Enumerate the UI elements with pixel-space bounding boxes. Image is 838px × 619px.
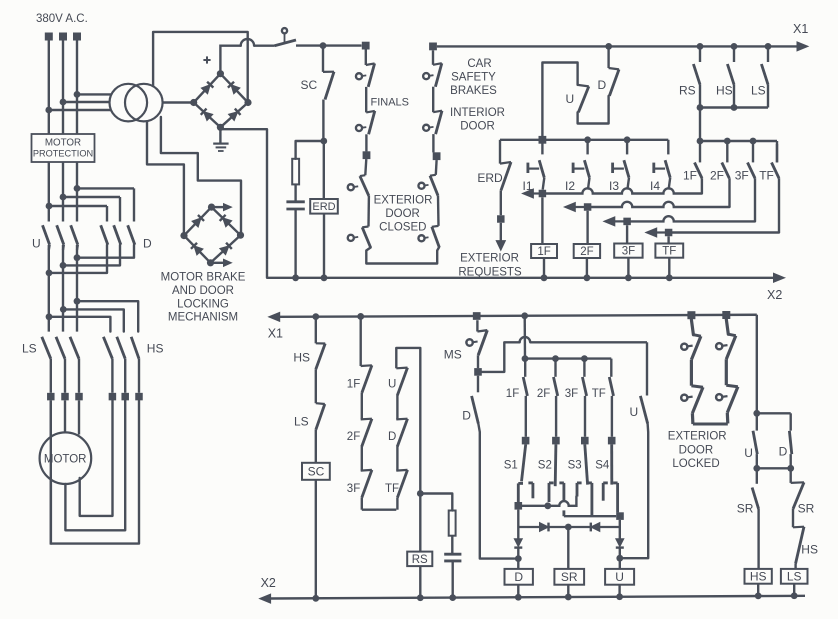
svg-text:1F: 1F	[347, 379, 360, 391]
svg-text:REQUESTS: REQUESTS	[458, 266, 522, 278]
svg-text:DOOR: DOOR	[679, 444, 714, 456]
svg-text:SAFETY: SAFETY	[451, 71, 496, 83]
svg-text:D: D	[779, 444, 788, 458]
svg-text:X1: X1	[268, 327, 283, 341]
svg-text:CAR: CAR	[467, 58, 491, 70]
svg-text:DOOR: DOOR	[385, 208, 420, 220]
svg-text:1F: 1F	[683, 168, 697, 182]
svg-text:CLOSED: CLOSED	[379, 221, 426, 233]
svg-text:I3: I3	[609, 179, 619, 193]
svg-text:I1: I1	[523, 179, 533, 193]
svg-text:SR: SR	[561, 570, 578, 584]
svg-text:U: U	[744, 446, 753, 460]
svg-text:SR: SR	[737, 501, 754, 515]
svg-text:SR: SR	[798, 501, 815, 515]
svg-text:EXTERIOR: EXTERIOR	[460, 252, 519, 264]
svg-text:LS: LS	[22, 342, 37, 356]
svg-text:U: U	[630, 405, 639, 419]
svg-text:D: D	[143, 237, 152, 251]
svg-text:MOTOR BRAKE: MOTOR BRAKE	[161, 272, 246, 284]
svg-text:HS: HS	[750, 570, 767, 584]
svg-text:X2: X2	[261, 576, 276, 590]
svg-text:2F: 2F	[710, 168, 724, 182]
svg-text:MOTOR: MOTOR	[44, 454, 87, 466]
svg-text:S1: S1	[504, 459, 518, 471]
svg-text:ERD: ERD	[477, 171, 503, 185]
svg-text:I4: I4	[650, 179, 660, 193]
svg-text:U: U	[566, 92, 575, 106]
svg-text:HS: HS	[716, 84, 733, 98]
svg-text:U: U	[615, 570, 624, 584]
svg-text:LS: LS	[751, 84, 766, 98]
svg-text:D: D	[598, 78, 607, 92]
svg-text:HS: HS	[801, 543, 818, 557]
svg-text:1F: 1F	[506, 388, 519, 400]
svg-text:INTERIOR: INTERIOR	[450, 107, 505, 119]
svg-text:PROTECTION: PROTECTION	[33, 148, 93, 158]
svg-text:SC: SC	[308, 465, 325, 479]
svg-text:D: D	[514, 570, 523, 584]
svg-text:AND DOOR: AND DOOR	[172, 285, 234, 297]
svg-text:DOOR: DOOR	[460, 120, 495, 132]
svg-text:U: U	[32, 237, 41, 251]
svg-text:FINALS: FINALS	[371, 97, 410, 109]
svg-text:SC: SC	[301, 78, 318, 92]
svg-text:380V A.C.: 380V A.C.	[36, 13, 88, 25]
svg-text:3F: 3F	[347, 483, 360, 495]
svg-text:LOCKING: LOCKING	[177, 298, 229, 310]
svg-text:S2: S2	[538, 459, 552, 471]
svg-text:3F: 3F	[735, 168, 749, 182]
svg-text:2F: 2F	[537, 388, 550, 400]
svg-text:2F: 2F	[580, 246, 593, 258]
svg-text:RS: RS	[412, 554, 428, 566]
svg-text:TF: TF	[662, 246, 676, 258]
svg-text:TF: TF	[759, 168, 774, 182]
svg-text:BRAKES: BRAKES	[450, 85, 497, 97]
svg-text:TF: TF	[592, 388, 606, 400]
svg-text:S4: S4	[595, 459, 610, 471]
svg-text:MS: MS	[444, 347, 462, 361]
svg-text:2F: 2F	[347, 431, 360, 443]
svg-text:D: D	[388, 431, 396, 443]
svg-text:TF: TF	[385, 483, 399, 495]
svg-text:3F: 3F	[622, 246, 635, 258]
svg-text:LOCKED: LOCKED	[672, 458, 719, 470]
svg-text:3F: 3F	[565, 388, 578, 400]
svg-text:EXTERIOR: EXTERIOR	[668, 430, 727, 442]
svg-text:MECHANISM: MECHANISM	[168, 312, 238, 324]
svg-text:X1: X1	[793, 22, 808, 36]
svg-text:ERD: ERD	[312, 201, 335, 213]
svg-text:HS: HS	[147, 342, 164, 356]
svg-text:S3: S3	[568, 459, 582, 471]
svg-text:1F: 1F	[537, 246, 550, 258]
svg-text:U: U	[388, 379, 396, 391]
svg-text:LS: LS	[787, 570, 802, 584]
svg-text:MOTOR: MOTOR	[45, 138, 81, 149]
svg-text:I2: I2	[565, 179, 575, 193]
svg-text:HS: HS	[293, 350, 310, 364]
svg-text:LS: LS	[294, 414, 309, 428]
svg-text:X2: X2	[767, 288, 782, 302]
svg-text:D: D	[462, 408, 471, 422]
svg-text:EXTERIOR: EXTERIOR	[374, 194, 433, 206]
svg-text:RS: RS	[679, 84, 696, 98]
